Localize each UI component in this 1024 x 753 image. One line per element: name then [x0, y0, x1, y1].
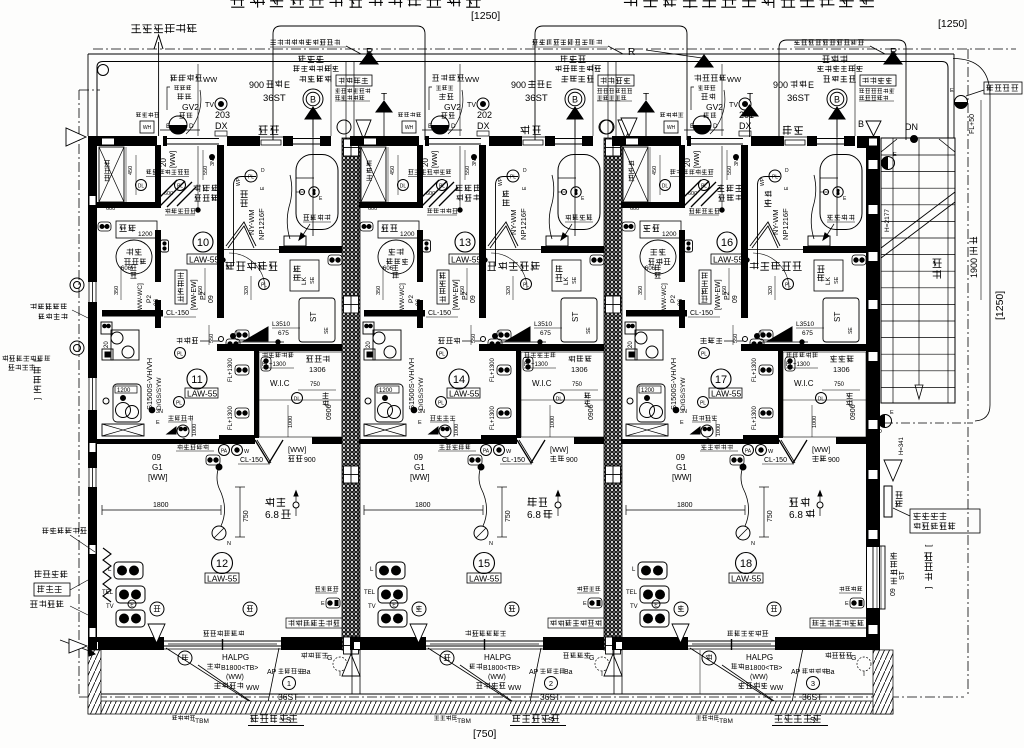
unit 2 window spec bracket line: [429, 87, 432, 110]
svg-text:AP: AP: [791, 669, 801, 676]
unit 2 FL+1300 outlets column: [497, 330, 511, 340]
svg-text:CL-150: CL-150: [690, 310, 713, 317]
unit 3 bath/washroom divider wall: [803, 246, 866, 253]
unit 2 1000 dim WIC: [549, 405, 551, 437]
zigzag service drop: [103, 548, 111, 602]
svg-text:N: N: [489, 541, 493, 547]
unit 1 top wall corner notch: [102, 139, 114, 145]
unit 2 kitchen counter wall stub: [417, 300, 423, 316]
svg-text:16: 16: [721, 237, 733, 249]
unit 1 washing machine box: [299, 298, 335, 342]
unit 2 top wall end block: [582, 136, 593, 146]
svg-text:ST: ST: [571, 312, 580, 322]
left wall white notches: [90, 196, 96, 205]
balcony left hatch strip: [88, 650, 101, 714]
svg-text:B: B: [858, 119, 864, 129]
svg-text:WP: WP: [498, 177, 504, 186]
auto light sensor label: [131, 24, 197, 33]
unit 2 F-doma step hatch: [422, 180, 458, 207]
unit 1 balcony glass door lines: [164, 640, 281, 642]
unit 2 washroom downlight: [521, 279, 532, 290]
svg-text:D/GS/SYW: D/GS/SYW: [418, 377, 425, 410]
unit 3 corridor wall outlet: [685, 240, 693, 252]
unit 3 range symbol half circle: [693, 125, 711, 134]
unit 1 remocon near wall: [168, 415, 193, 421]
unit 2 bath vent axis line: [574, 119, 576, 236]
svg-text:550: 550: [471, 334, 477, 343]
auto light sensor arrow: [158, 42, 160, 136]
unit 3 toilet outlet: [622, 222, 635, 231]
svg-text:LAW-55: LAW-55: [449, 389, 480, 399]
svg-text:NP1216F: NP1216F: [519, 208, 528, 240]
unit 3 LAW-55 box second: [709, 388, 742, 398]
unit 3 monohoshi label underlined: [775, 714, 821, 722]
svg-text:SE: SE: [848, 327, 854, 334]
unit 1 washroom downlight: [259, 279, 270, 290]
unit 3 750 dim WIC: [822, 389, 860, 391]
unit 3 SIC/hall divider wall vertical: [679, 145, 685, 205]
unit 3 living north wall left part: [621, 439, 743, 444]
unit 3 corner TBM label: [696, 715, 719, 720]
unit 2 bath drain circles: [571, 187, 581, 197]
svg-text:-TBM: -TBM: [717, 718, 733, 725]
unit 1 WIC outlet: [261, 357, 271, 371]
stair inner right line: [947, 138, 949, 403]
unit 2 F-doma label: [455, 184, 480, 191]
top heading note left (clipped): [230, 0, 874, 8]
unit 1 SIC/hall divider wall vertical: [155, 145, 161, 205]
svg-text:[WW]: [WW]: [432, 151, 439, 168]
unit 2 DL downlight: [398, 180, 409, 191]
unit 1 junction dots: [196, 208, 200, 212]
unit 3 350 dim toilet: [644, 266, 646, 300]
unit 1 bath door wavy line: [287, 175, 292, 239]
svg-text:600: 600: [630, 206, 639, 212]
svg-text:DL: DL: [294, 397, 301, 403]
unit 2 key window label column: [392, 265, 399, 279]
svg-text:WW: WW: [770, 685, 784, 692]
unit 2 toilet label: [388, 248, 404, 255]
nameplate bar: [884, 486, 892, 517]
svg-text:LAW-55: LAW-55: [451, 255, 482, 265]
balcony divider at shaft 1: [351, 650, 353, 694]
unit 1 duct zone rounded outline: [273, 26, 425, 140]
svg-text:[WW]: [WW]: [694, 151, 701, 168]
unit 2 bath door wavy line: [549, 175, 554, 239]
svg-text:E: E: [166, 123, 171, 130]
stair break diagonals: [881, 192, 955, 248]
svg-text:H=2177: H=2177: [884, 209, 891, 232]
svg-text:[1250]: [1250]: [994, 291, 1006, 320]
unit 3 top exterior wall segment C: [751, 136, 784, 146]
unit 1 key window label column: [130, 265, 136, 279]
svg-text:NP1216F: NP1216F: [257, 208, 266, 240]
unit 3 1000 dim left: [715, 420, 717, 437]
unit 1 kitchen sink 1200: [113, 384, 141, 422]
unit 3 remocon leader arrow: [825, 224, 834, 238]
svg-text:[1250]: [1250]: [471, 10, 500, 22]
svg-text:PL: PL: [523, 283, 529, 289]
svg-text:FL+1300: FL+1300: [228, 405, 234, 430]
svg-text:(WW): (WW): [750, 674, 768, 681]
svg-text:203: 203: [215, 110, 230, 120]
unit 2 washroom door arc: [491, 253, 527, 289]
stair stringer line: [892, 138, 894, 403]
svg-text:1306: 1306: [309, 365, 326, 374]
unit 3 SIC label: [628, 161, 634, 181]
unit 1 bath door line: [224, 249, 279, 251]
svg-text:900: 900: [828, 457, 840, 464]
svg-text:L3510: L3510: [272, 321, 290, 328]
unit 2 floor hatch X box: [364, 424, 406, 436]
unit 2 laundry pole leader lines: [428, 648, 528, 712]
svg-text:FL+1300: FL+1300: [490, 405, 496, 430]
unit 1 washroom outlet bottom: [226, 339, 240, 349]
unit 3 kan circle vent: [702, 651, 716, 665]
unit 1 balcony rail wall right: [281, 637, 342, 650]
svg-text:W.I.C: W.I.C: [270, 379, 290, 388]
unit 3 OP shelf vertical label: [817, 265, 824, 281]
svg-text:HALPG: HALPG: [222, 653, 249, 662]
svg-text:3N: 3N: [734, 159, 740, 166]
unit 1 inner wall drill note: [146, 169, 189, 175]
svg-text:LAW-55: LAW-55: [469, 574, 500, 584]
unit 3 remocon near wall: [692, 415, 717, 421]
unit 3 F-doma label: [717, 185, 743, 192]
unit 2 SIC shoe closet box: [361, 147, 386, 202]
svg-text:E: E: [845, 601, 849, 607]
unit 3 hatch lamp circle: [699, 180, 710, 191]
unit 1 cooler note: [315, 586, 338, 591]
unit 3 balcony rail wall left: [612, 637, 688, 650]
svg-text:CL-150: CL-150: [502, 457, 525, 464]
unit 2 PA lamp circle: [481, 445, 492, 456]
unit 1 kitchen counter two burners: [111, 330, 139, 360]
unit 2 balcony number circle: [545, 677, 558, 690]
svg-text:550: 550: [722, 286, 728, 295]
svg-text:R: R: [628, 47, 635, 58]
unit 2 washroom label senmen-datsuiishitsu: [487, 261, 540, 271]
svg-text:750: 750: [572, 382, 583, 388]
svg-text:AP: AP: [267, 669, 277, 676]
unit 2 kitchen counter two burners: [373, 330, 401, 360]
unit 3 LAW-55 box first: [711, 254, 744, 264]
svg-text:LAW-55: LAW-55: [713, 255, 744, 265]
svg-text:PL: PL: [176, 401, 182, 407]
svg-text:E: E: [583, 601, 587, 607]
unit 1 kitchen-fan drill note text: [270, 39, 340, 45]
unit 2 R vent triangle: [646, 50, 702, 58]
top heading note right (clipped): [624, 0, 639, 6]
unit 3 toilet label: [650, 249, 665, 256]
svg-text:Ba: Ba: [302, 669, 311, 676]
unit 3 laundry pole leader lines: [690, 648, 790, 712]
svg-text:PL: PL: [261, 283, 267, 289]
unit 1 bath vent circle B: [303, 89, 323, 109]
unit 1 laundry pole leader lines: [166, 648, 266, 712]
svg-text:600: 600: [164, 191, 173, 197]
svg-text:09: 09: [208, 295, 215, 303]
svg-text:900: 900: [304, 457, 316, 464]
unit 1 living north wall left part: [97, 439, 219, 444]
unit 3 top exterior wall segment A: [612, 136, 681, 146]
unit 2 living north wall left part: [359, 439, 481, 444]
svg-text:E: E: [321, 601, 325, 607]
unit 3 cooler reinforce box: [810, 618, 868, 628]
unit 2 TV telephone outlet cluster: [376, 562, 405, 579]
unit 2 sleeve G label: [563, 652, 590, 658]
left exterior wall mid: [88, 302, 97, 378]
unit 2 550 dim kitchen: [470, 325, 472, 345]
svg-text:L3510: L3510: [534, 321, 552, 328]
svg-text:PA: PA: [221, 449, 228, 455]
unit 1 top exterior wall segment D: [283, 136, 293, 146]
svg-text:[WW]: [WW]: [550, 445, 568, 454]
unit 3 top wall end block: [844, 136, 855, 146]
unit 3 550 dim vertical: [726, 150, 728, 180]
svg-text:H=341: H=341: [899, 436, 905, 455]
unit 3 lattice window label (mengoushi): [822, 55, 847, 63]
svg-text:606: 606: [645, 266, 656, 272]
unit 2 top exterior wall segment D: [545, 136, 555, 146]
handrail label vertical: [933, 259, 942, 279]
unit 1 TV telephone outlet cluster: [114, 562, 143, 579]
svg-text:ST: ST: [309, 312, 318, 322]
svg-text:1200: 1200: [379, 388, 393, 394]
svg-text:N: N: [227, 541, 231, 547]
unit 2 DX small box: [477, 131, 489, 136]
unit 2 toilet/hall divider wall vertical: [417, 230, 423, 282]
unit 2 sleeve dashed circle: [595, 657, 609, 671]
svg-text:PL: PL: [785, 283, 791, 289]
svg-text:[WW-EW]: [WW-EW]: [453, 279, 460, 310]
svg-text:W: W: [506, 449, 512, 455]
unit 1 tub deck line: [296, 177, 314, 179]
svg-text:E: E: [890, 410, 894, 416]
svg-text:1000: 1000: [192, 424, 198, 436]
unit 2 bath vent triangle: [567, 107, 583, 119]
unit 1 washroom bottom wall: [217, 344, 342, 351]
svg-text:DL: DL: [662, 184, 669, 190]
svg-text:PL: PL: [510, 175, 516, 181]
svg-text:E: E: [284, 80, 290, 90]
board note left bottom: [42, 527, 87, 534]
stair treads: [881, 154, 955, 156]
unit 2 UB shell outline: [496, 177, 519, 267]
unit 3 unit number circle first: [717, 232, 737, 252]
unit 2 cooler reinforce box: [548, 618, 606, 628]
svg-text:PL: PL: [177, 184, 183, 190]
unit 2 TV outlet circle: [477, 98, 489, 110]
unit 3 top wall corner notch: [626, 139, 638, 145]
unit 1 toilet outlet: [98, 222, 111, 231]
unit 3 betsu-sekkei vertical box: [699, 270, 711, 304]
unit 3 bath window double line: [817, 138, 844, 140]
stair enclosure: [881, 138, 955, 403]
unit 3 leader lines from top into plan: [721, 64, 723, 136]
unit 1 3N label kitchen: [149, 407, 155, 413]
unit 3 washroom door chevron: [750, 222, 780, 246]
svg-text:LAW-55: LAW-55: [207, 574, 238, 584]
unit 3 SIC/toilet divider wall: [621, 202, 685, 208]
unit 3 washroom outlet bottom: [750, 339, 764, 349]
balcony divider right: [699, 650, 701, 694]
unit 2 inner wall drill note: [408, 169, 451, 175]
balcony floor edge line: [88, 693, 893, 695]
unit 3 sleeve dashed circle: [857, 657, 871, 671]
unit 1 living outlet below wall: [206, 455, 220, 465]
corridor outer line: [88, 53, 954, 55]
svg-text:B1800<TB>: B1800<TB>: [221, 665, 258, 672]
svg-text:ST: ST: [899, 570, 906, 580]
unit 3 mono circles: [674, 602, 688, 616]
unit 1 corridor window double line: [167, 138, 219, 140]
unit 3 top wall stub B: [687, 136, 691, 146]
svg-text:LK: LK: [301, 276, 308, 285]
unit 2 folding door symbol: [517, 440, 545, 463]
unit 1 WIC lamp: [292, 393, 303, 404]
unit 1 WIC left wall: [254, 351, 259, 438]
svg-text:[WW]: [WW]: [410, 473, 430, 482]
unit 3 balcony glass door lines: [688, 640, 775, 642]
unit 2 bath vent circle B: [565, 89, 585, 109]
tsuma-tsuke 1900 vertical: [969, 237, 978, 255]
unit 1 DL downlight: [136, 180, 147, 191]
svg-text:GV2: GV2: [444, 102, 461, 112]
unit 2 1000 dim left: [453, 420, 455, 437]
svg-text:HALPG: HALPG: [746, 653, 773, 662]
unit 3 hall door axis line: [721, 146, 723, 210]
svg-text:Ba: Ba: [564, 669, 573, 676]
svg-text:D/GS/SYW: D/GS/SYW: [156, 377, 163, 410]
unit 2 leader lines from top into plan: [459, 64, 461, 136]
svg-text:550: 550: [460, 286, 466, 295]
unit 2 toilet bowl: [378, 240, 414, 274]
unit 1 living room name yoshitsu 6.8: [265, 498, 285, 507]
unit 3 toilet/hall divider wall vertical: [679, 230, 685, 282]
site boundary dash-dot right: [967, 49, 969, 697]
svg-text:(WW): (WW): [488, 674, 506, 681]
svg-text:D: D: [261, 168, 265, 174]
svg-text:20: 20: [366, 341, 372, 348]
unit 2 microwave note: [524, 352, 555, 358]
unit 3 height symbol arrow: [817, 502, 823, 508]
svg-text:CL-150: CL-150: [166, 310, 189, 317]
unit 2 washroom bottom wall: [479, 344, 604, 351]
unit 1 kitchen toilet duct note: [335, 88, 370, 93]
unit 1 shaft bottom triangle mark: [342, 654, 360, 676]
unit 1 unit number circle second: [187, 369, 207, 389]
unit 1 mono circles: [150, 602, 164, 616]
unit 3 F-doma step hatch: [684, 180, 720, 207]
unit 3 betsu-sekkei box: [860, 75, 896, 86]
unit 3 WIC lamp: [816, 393, 827, 404]
unit 1 balcony number circle: [283, 677, 296, 690]
unit 1 sleeve G label: [301, 652, 328, 658]
unit 2 shaft duct riser lines: [607, 62, 609, 139]
unit 3 duct zone rounded outline: [779, 40, 906, 140]
svg-text:09: 09: [414, 453, 423, 462]
svg-text:[WW-WC]: [WW-WC]: [137, 283, 144, 312]
svg-text:[WW]: [WW]: [148, 473, 168, 482]
unit 2 washroom outlet bottom: [488, 339, 502, 349]
unit 3 ceiling light symbol with cord: [736, 526, 750, 540]
unit 1 top wall end block: [320, 136, 331, 146]
unit 2 hot water label (oikyu): [521, 125, 541, 134]
svg-text:[WW]: [WW]: [170, 151, 177, 168]
outer wall lattice window gap: [867, 547, 879, 608]
svg-text:1: 1: [287, 679, 291, 688]
unit 1 cooler reinforce box: [286, 618, 344, 628]
svg-text:TV: TV: [205, 102, 214, 109]
svg-text:D: D: [523, 168, 527, 174]
svg-text:WH: WH: [143, 125, 152, 131]
unit 3 washroom label senmen-datsuiishitsu: [750, 261, 802, 271]
svg-text:FL+1300: FL+1300: [490, 357, 496, 382]
unit 1 kitchen counter wall stub: [155, 300, 161, 316]
unit 3 level mark triangle on rail: [672, 624, 689, 643]
svg-text:20: 20: [628, 341, 634, 348]
svg-text:G1: G1: [414, 463, 425, 472]
svg-text:675: 675: [802, 330, 813, 337]
unit 1 betsu-sekkei box: [336, 75, 372, 86]
unit 3 living north wall right part: [836, 437, 866, 444]
unit 2 curtain rail lines: [430, 640, 539, 642]
unit 3 bath door wavy line: [811, 175, 816, 239]
svg-text:E: E: [156, 420, 160, 426]
svg-text:[WW]: [WW]: [812, 445, 830, 454]
svg-text:450: 450: [652, 166, 658, 175]
unit 2 550 dim vertical: [464, 150, 466, 180]
unit 1 hall label: [177, 337, 198, 344]
unit 1 hot water label (oikyu): [259, 125, 279, 135]
unit 1 bath vent axis line: [312, 119, 314, 236]
unit 2 level mark triangle on rail: [410, 624, 427, 643]
svg-text:W.I.C: W.I.C: [794, 379, 814, 388]
svg-text:1200: 1200: [662, 231, 677, 238]
right top symbol: [955, 96, 968, 109]
unit 3 vanity cabinet: [814, 260, 843, 291]
unit 2 remocon label underlined: [566, 214, 593, 220]
svg-text:606: 606: [383, 266, 394, 272]
svg-text:675: 675: [540, 330, 551, 337]
unit 3 SIC shoe closet box: [623, 147, 648, 202]
unit 3 folding door symbol: [779, 440, 807, 463]
unit 2 corridor window double line: [429, 138, 481, 140]
unit 1 PA lamp circle: [219, 445, 230, 456]
unit 2 bath window double line: [555, 138, 582, 140]
unit 1 pipe shaft hatched: [342, 138, 360, 650]
S symbol circles left: [70, 278, 84, 292]
unit 1 gas meter note: [177, 444, 208, 450]
unit 3 door swing arc at entry: [710, 90, 725, 134]
unit 2 unit number circle third: [474, 553, 495, 574]
svg-text:09: 09: [732, 295, 739, 303]
svg-text:14: 14: [453, 374, 465, 386]
unit 1 bath lamp circles: [245, 170, 257, 182]
svg-text:TV: TV: [368, 604, 376, 610]
svg-text:20: 20: [421, 158, 430, 167]
svg-text:[WW-WC]: [WW-WC]: [399, 283, 406, 312]
svg-text:E: E: [808, 80, 814, 90]
unit 3 toilet washer box: [640, 221, 681, 238]
svg-text:DL: DL: [556, 397, 563, 403]
unit 2 betsu-sekkei vertical box: [437, 270, 449, 304]
unit 1 toilet/hall divider wall vertical: [155, 230, 161, 282]
svg-text:-TBM: -TBM: [193, 718, 209, 725]
svg-text:TV: TV: [467, 102, 476, 109]
svg-text:W.I.C: W.I.C: [532, 379, 552, 388]
